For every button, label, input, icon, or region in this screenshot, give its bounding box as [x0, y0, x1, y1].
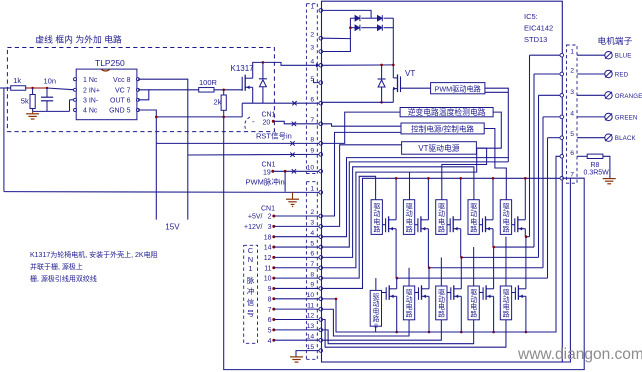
svg-text:3: 3	[310, 45, 314, 52]
connector CN-B dashed box	[306, 182, 317, 360]
node dot zener2 bottom	[380, 101, 383, 104]
wire pin3 into box	[323, 18, 351, 51]
svg-text:6: 6	[310, 251, 314, 258]
wire CN1-19 to pin10	[273, 170, 319, 172]
wire K1317 source rail	[242, 87, 321, 103]
svg-text:www.diangon.com: www.diangon.com	[517, 346, 642, 363]
box VT驱动电源	[402, 142, 477, 155]
svg-text:9: 9	[310, 148, 314, 155]
svg-text:CN1: CN1	[261, 205, 275, 212]
svg-text:+5V/: +5V/	[248, 214, 263, 221]
svg-text:BLUE: BLUE	[615, 53, 632, 60]
node dot diode left	[349, 26, 352, 29]
resistor R 2k	[214, 90, 227, 111]
svg-text:PWM脉冲in: PWM脉冲in	[246, 176, 285, 186]
wire box2 stem	[409, 172, 411, 200]
svg-text:13: 13	[307, 323, 315, 330]
svg-text:4: 4	[268, 338, 272, 345]
svg-text:7: 7	[268, 307, 272, 314]
capacitor C 10n	[41, 77, 56, 112]
svg-text:驱动电路: 驱动电路	[438, 202, 445, 233]
svg-text:PWM驱动电路: PWM驱动电路	[435, 85, 481, 94]
svg-text:1k: 1k	[13, 76, 21, 85]
TLP250 pin circles	[74, 78, 140, 112]
box PWM驱动电路	[431, 83, 509, 94]
wire conn2-pin4 to PWM wrap	[323, 158, 509, 237]
wire 控制 wrap to box5	[484, 129, 506, 200]
label VT	[405, 69, 415, 78]
wire conn2-pin2 to 控制 box	[323, 132, 401, 216]
svg-text:虚线 框内 为外加 电路: 虚线 框内 为外加 电路	[35, 34, 122, 45]
node dot cap top	[46, 87, 48, 89]
wire VT-box wrap to box3	[442, 148, 487, 200]
svg-text:11: 11	[264, 265, 271, 272]
watermark www.diangon.com	[517, 346, 642, 363]
svg-text:19: 19	[263, 169, 271, 176]
svg-text:EIC4142: EIC4142	[524, 24, 553, 33]
transistor Q VT	[393, 65, 400, 102]
dashed box CN1脉冲信号	[244, 245, 258, 343]
connector CN-C dashed box	[567, 45, 578, 183]
wire pin6 row inside	[323, 101, 394, 103]
wire pin2 into box	[323, 37, 351, 39]
output staircase wires to motor connector	[396, 55, 562, 279]
svg-text:4: 4	[310, 230, 314, 237]
zener D6 (VT)	[378, 65, 386, 102]
ground (CN1 bottom)	[290, 351, 319, 363]
TLP250 dimple	[101, 69, 110, 71]
diode D2 top-left	[350, 15, 371, 21]
box 控制电源/控制电路	[401, 123, 484, 134]
connector CN-A pins 1-10	[307, 4, 323, 173]
svg-text:5: 5	[268, 327, 272, 334]
svg-text:9: 9	[268, 286, 272, 293]
ground rail wire	[33, 100, 75, 112]
svg-text:逆变电路温度检测电路: 逆变电路温度检测电路	[408, 107, 486, 117]
node dot VT drain	[392, 64, 395, 67]
resistor R 1k	[11, 76, 26, 90]
note text K1317	[30, 250, 158, 283]
wire busB from conn2-pin6 to box4	[323, 167, 474, 258]
svg-text:5k: 5k	[21, 96, 29, 105]
svg-text:18: 18	[264, 234, 272, 241]
label K1317	[231, 64, 255, 73]
svg-text:1: 1	[310, 186, 314, 193]
wire conn1-pin8 to 逆变 box	[323, 112, 401, 143]
X mark pin9 wire	[290, 153, 294, 157]
X mark pin10 wire	[292, 169, 296, 173]
X mark pin8 wire	[290, 141, 294, 145]
wire K1317 drain up	[253, 62, 317, 78]
svg-text:0.3R5W: 0.3R5W	[584, 170, 610, 177]
wire 100R to gate	[214, 89, 242, 91]
diode D4 bottom-left	[350, 25, 371, 31]
svg-text:驱动电路: 驱动电路	[373, 202, 380, 233]
label IC5 EIC4142 STD13	[524, 12, 553, 44]
svg-text:GREEN: GREEN	[615, 114, 638, 121]
svg-text:驱动电路: 驱动电路	[406, 202, 413, 233]
svg-text:驱动电路: 驱动电路	[470, 289, 477, 319]
svg-text:4: 4	[570, 110, 574, 117]
node CN1-19 dot	[271, 170, 274, 173]
svg-text:GND 5: GND 5	[109, 108, 131, 115]
node dot 2k top	[222, 89, 225, 92]
wire PWM wrap vertical	[485, 88, 508, 162]
svg-text:15V: 15V	[165, 223, 180, 232]
TLP250 pin labels right	[109, 77, 131, 115]
CN1-20 dashed arc	[245, 117, 250, 129]
svg-text:15: 15	[307, 344, 315, 351]
svg-text:驱动电路: 驱动电路	[438, 289, 445, 319]
connector CN-C pins 1-7	[560, 49, 574, 180]
wire busA from conn2-pin5	[323, 162, 509, 247]
svg-text:5: 5	[310, 240, 314, 247]
wire conn2-pin3 to VT box	[323, 145, 402, 227]
pin5 stub	[314, 79, 320, 83]
svg-text:4 Nc: 4 Nc	[83, 108, 98, 115]
wire pin4 into box	[323, 64, 394, 66]
transistor Q K1317	[242, 75, 253, 91]
svg-text:3: 3	[570, 89, 574, 96]
resistor R 100R	[199, 78, 218, 92]
ground (input)	[26, 111, 39, 119]
wire pin6 to R8	[577, 155, 587, 157]
box 逆变电路温度检测电路	[400, 107, 493, 117]
MOSFET array bottom row (5 driver+FET)	[370, 237, 527, 334]
ground (R8)	[603, 179, 616, 184]
label 15V	[165, 223, 180, 232]
svg-text:10: 10	[307, 164, 315, 171]
ground (signal, mid)	[286, 192, 299, 207]
label PWM脉冲in	[246, 176, 285, 186]
X mark pin7 wire	[292, 122, 296, 126]
svg-text:Vcc 8: Vcc 8	[113, 77, 131, 84]
wire box1 bottom stem	[375, 326, 377, 332]
svg-text:8: 8	[310, 137, 314, 144]
wire pin1 into box	[323, 10, 372, 18]
wire VT gate to PWM box	[401, 87, 431, 89]
vertical label CN1脉冲信号	[247, 246, 255, 318]
node dot gnd-rail	[155, 116, 158, 119]
svg-text:4: 4	[310, 59, 314, 66]
svg-text:IC5:: IC5:	[524, 12, 538, 21]
wire source bus to pin6	[323, 156, 562, 332]
wire 1k to pin2 (red segment)	[25, 88, 75, 90]
resistor R8	[587, 154, 603, 158]
wire input left rail	[0, 88, 11, 192]
external-circuit dashed box	[7, 48, 274, 132]
svg-text:VT驱动电源: VT驱动电源	[418, 143, 459, 153]
wires conn2 pins 11-14 to bottom driver stems	[323, 309, 506, 347]
svg-text:2k: 2k	[214, 98, 222, 107]
label CN1 (bottom block)	[261, 205, 275, 212]
label CN1 20	[252, 112, 276, 127]
svg-text:2 IN+: 2 IN+	[83, 87, 100, 94]
svg-text:TLP250: TLP250	[95, 58, 125, 68]
wire diode right drop	[392, 18, 394, 65]
svg-text:控制电源/控制电路: 控制电源/控制电路	[411, 124, 474, 134]
MOSFET array top row (5 driver+FET)	[371, 177, 526, 278]
wire CN1-20 to pin7	[273, 121, 319, 124]
svg-text:6: 6	[268, 317, 272, 324]
svg-text:K1317为轮椅电机, 安装于外壳上, 2K电阻: K1317为轮椅电机, 安装于外壳上, 2K电阻	[30, 250, 158, 259]
svg-text:7: 7	[310, 117, 314, 124]
svg-text:栅, 源极引线用双绞线: 栅, 源极引线用双绞线	[30, 274, 97, 283]
connector CN-A dashed box	[306, 4, 317, 174]
label RST信号in	[256, 131, 292, 141]
svg-text:14: 14	[307, 333, 315, 340]
svg-text:驱动电路: 驱动电路	[503, 289, 510, 319]
svg-text:OUT 6: OUT 6	[110, 97, 131, 104]
resistor R 5k	[21, 88, 35, 111]
arrowhead pin4	[316, 63, 320, 67]
svg-text:5: 5	[570, 131, 574, 138]
node dot zener1 top	[262, 61, 265, 64]
svg-text:ORANGE: ORANGE	[615, 93, 642, 100]
svg-text:-: -	[252, 117, 255, 126]
svg-text:2: 2	[310, 31, 314, 38]
svg-text:6: 6	[570, 150, 574, 157]
svg-text:2: 2	[310, 209, 314, 216]
X mark pin6 wire	[292, 101, 296, 105]
svg-text:3: 3	[310, 220, 314, 227]
controller box	[322, 1, 563, 362]
wire source to 2k rail	[241, 103, 243, 117]
svg-text:6: 6	[310, 96, 314, 103]
svg-text:7: 7	[310, 261, 314, 268]
svg-text:2: 2	[570, 68, 574, 75]
TLP250 pin labels left	[83, 77, 100, 115]
wire pin9 row	[188, 153, 319, 156]
connector CN-B pins 1-15	[307, 186, 323, 353]
svg-text:11: 11	[307, 302, 314, 309]
svg-text:10n: 10n	[44, 77, 57, 86]
svg-text:驱动电路: 驱动电路	[470, 202, 477, 233]
svg-text:CN1: CN1	[262, 112, 276, 119]
svg-text:12: 12	[307, 313, 315, 320]
svg-text:驱动电路: 驱动电路	[406, 289, 413, 319]
svg-text:20: 20	[263, 119, 271, 126]
wire inner return to box bottom	[562, 178, 570, 362]
svg-text:RST信号in: RST信号in	[256, 131, 292, 141]
label R8 0.3R5W	[584, 162, 610, 177]
svg-text:3: 3	[268, 224, 272, 231]
diode D3 top-right	[371, 15, 393, 21]
svg-text:1: 1	[570, 49, 574, 56]
svg-text:8: 8	[268, 296, 272, 303]
wire left long to conn2 pin1	[4, 191, 319, 194]
wire pin7 to 100R	[149, 89, 199, 91]
svg-text:9: 9	[310, 282, 314, 289]
node CN1-20 dot	[272, 120, 275, 123]
svg-text:VC 7: VC 7	[115, 87, 131, 94]
svg-text:RED: RED	[615, 72, 629, 79]
svg-text:8: 8	[310, 271, 314, 278]
svg-text:14: 14	[264, 245, 272, 252]
wire busC from conn2-pin7 (逆变 wrap, box2)	[323, 112, 502, 268]
svg-text:100R: 100R	[199, 78, 218, 87]
wire Vcc pin8 to 15V rail	[138, 79, 188, 219]
svg-text:1: 1	[310, 4, 314, 11]
node dot 2k bottom	[222, 116, 225, 119]
node dot at 5k top	[31, 87, 33, 89]
diode D5 bottom-right	[371, 25, 393, 31]
svg-text:3 IN-: 3 IN-	[83, 97, 99, 104]
wire busD from conn2-pin8 to box1	[323, 176, 376, 278]
svg-text:CN1: CN1	[262, 162, 276, 169]
wire GND pin5 down	[138, 110, 156, 220]
wire drain bus from conn2-pin9	[323, 178, 562, 288]
svg-text:STD13: STD13	[524, 35, 547, 44]
svg-text:K1317: K1317	[231, 64, 255, 73]
svg-text:+12V/: +12V/	[244, 224, 263, 231]
motor terminals BLUE RED ORANGE GREEN BLACK	[577, 52, 642, 143]
svg-text:10: 10	[307, 292, 315, 299]
svg-text:7: 7	[570, 172, 574, 179]
svg-text:12: 12	[264, 255, 272, 262]
node dot pwm branch	[284, 170, 287, 173]
svg-text:电机端子: 电机端子	[598, 35, 633, 46]
svg-text:2: 2	[268, 214, 272, 221]
svg-text:驱动电路: 驱动电路	[503, 202, 510, 233]
title label 虚线框内为外加电路	[35, 34, 122, 45]
wire pin8 row	[156, 142, 319, 144]
svg-text:BLACK: BLACK	[615, 135, 637, 142]
label CN1 19	[262, 162, 276, 177]
wire VC7-OUT6 tie	[138, 90, 149, 100]
opto-coupler U TLP250 body	[76, 58, 137, 120]
svg-text:1 Nc: 1 Nc	[83, 77, 98, 84]
wire conn1-pin7 to 控制 box	[323, 124, 401, 126]
node dot zener2 top	[380, 64, 383, 67]
zener D1 (K1317)	[259, 62, 267, 103]
svg-text:并联于栅, 源极上: 并联于栅, 源极上	[30, 262, 83, 271]
svg-text:R8: R8	[591, 162, 600, 169]
wire R8 to ground	[603, 156, 610, 178]
svg-text:10: 10	[264, 276, 272, 283]
wire pin7 external loop	[224, 117, 585, 370]
CN1 pins and wires to conn2	[244, 214, 319, 345]
wire pwm branch down	[284, 171, 286, 191]
label 电机端子	[598, 35, 633, 46]
svg-text:VT: VT	[405, 69, 415, 78]
wire 2k bottom rail	[156, 110, 242, 117]
